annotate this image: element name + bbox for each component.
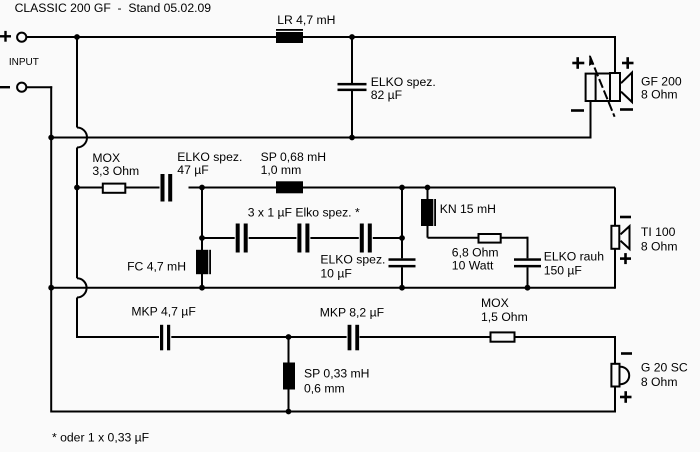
speaker TI 100 cone	[621, 226, 630, 249]
svg-text:8 Ohm: 8 Ohm	[641, 375, 678, 389]
speaker GF 200 voice coil 1	[586, 74, 596, 101]
svg-text:MKP 8,2 µF: MKP 8,2 µF	[320, 305, 384, 319]
wire: ELKO rauh branch vertical	[527, 237, 529, 259]
node: chain / branch	[199, 235, 205, 241]
wire: ELKO 10 branch vertical	[401, 188, 403, 259]
input minus terminal	[0, 86, 10, 88]
svg-text:LR 4,7 mH: LR 4,7 mH	[277, 13, 335, 27]
node: mid feed / chain branch	[199, 185, 205, 191]
node: mid return / ELKO rauh	[525, 285, 531, 291]
wire: minus rail vertical	[50, 86, 52, 412]
wire: G20SC feed drop	[614, 336, 616, 364]
wire: SP 0,33 branch upper	[288, 337, 290, 363]
svg-text:1,5 Ohm: 1,5 Ohm	[481, 310, 528, 324]
svg-text:* oder 1 x 0,33 µF: * oder 1 x 0,33 µF	[52, 430, 149, 444]
svg-text:8 Ohm: 8 Ohm	[641, 88, 678, 102]
wire: bottom section return	[51, 411, 615, 413]
wire: chain branch vertical	[201, 188, 203, 251]
inductor SP 0,33 mH	[283, 363, 295, 390]
svg-text:3,3 Ohm: 3,3 Ohm	[92, 164, 139, 178]
node: return / minus rail	[48, 135, 54, 141]
wire: top feed rail	[26, 36, 615, 38]
node: mid feed / KN branch	[425, 185, 431, 191]
svg-text:10 Watt: 10 Watt	[452, 259, 494, 273]
wire: TI100 feed drop	[614, 188, 616, 227]
inductor LR 4,7 mH	[276, 32, 303, 43]
wire: TI100 return riser	[614, 249, 616, 289]
speaker G 20 SC body	[611, 364, 619, 387]
wire: top section return	[51, 137, 590, 139]
speaker GF 200 polarity arrow	[589, 55, 615, 117]
wire: plus rail vertical middle	[76, 148, 78, 279]
svg-text:10 µF: 10 µF	[320, 267, 351, 281]
wire: SP 0,33 branch lower	[288, 389, 290, 412]
node: chain / ELKO 10	[399, 235, 405, 241]
svg-text:KN 15 mH: KN 15 mH	[440, 202, 496, 216]
inductor KN 15 mH	[421, 199, 433, 226]
inductor KN 15 mH core line	[434, 199, 436, 226]
svg-text:47 µF: 47 µF	[177, 163, 208, 177]
svg-text:G 20 SC: G 20 SC	[641, 361, 688, 375]
capacitor 1uF no.1	[235, 224, 249, 253]
svg-text:1,0 mm: 1,0 mm	[261, 163, 302, 177]
wire: minus input to rail	[26, 86, 52, 88]
speaker G 20 SC plus mark	[620, 391, 632, 403]
speaker TI 100 plus mark	[620, 253, 631, 264]
wire: bottom section feed line	[77, 336, 615, 338]
node: return / ELKO 82	[349, 135, 355, 141]
speaker GF 200 cone	[621, 73, 632, 103]
svg-text:8 Ohm: 8 Ohm	[641, 239, 678, 253]
node: mid return / ELKO 10	[399, 285, 405, 291]
wire: plus rail vertical lower	[76, 298, 78, 339]
input plus terminal	[0, 31, 11, 42]
wire: ELKO 82 branch upper	[351, 37, 353, 83]
capacitor ELKO spez. 10 uF	[389, 258, 416, 267]
svg-text:0,6 mm: 0,6 mm	[304, 382, 345, 396]
node: top feed / plus rail	[74, 34, 80, 40]
svg-text:TI 100: TI 100	[641, 225, 676, 239]
svg-text:ELKO spez.: ELKO spez.	[371, 75, 436, 89]
svg-text:ELKO spez.: ELKO spez.	[177, 150, 242, 164]
resistor 6,8 Ohm 10 Watt	[479, 234, 501, 243]
node: mid return / FC	[199, 285, 205, 291]
wire: FC to mid return	[201, 274, 203, 289]
wire hop over mid return	[77, 278, 87, 297]
speaker GF 200 frame links	[597, 74, 610, 102]
speaker GF 200 voice coil 2	[610, 73, 620, 101]
node: mid return / minus rail	[48, 285, 54, 291]
capacitor ELKO spez. 82 uF	[338, 83, 367, 91]
svg-text:ELKO spez.: ELKO spez.	[320, 252, 385, 266]
svg-text:GF 200: GF 200	[641, 74, 682, 88]
capacitor MKP 4,7 uF	[159, 325, 171, 351]
svg-text:82 µF: 82 µF	[371, 88, 402, 102]
capacitor MKP 8,2 uF	[347, 325, 360, 351]
svg-text:150 µF: 150 µF	[544, 264, 582, 278]
wire: ELKO 82 branch lower	[351, 91, 353, 138]
capacitor ELKO rauh 150 uF	[514, 258, 541, 267]
node: mid feed / plus rail	[74, 185, 80, 191]
speaker GF 200 minus mark left	[571, 109, 584, 112]
speaker TI 100 body	[611, 226, 619, 249]
speaker G 20 SC dome	[621, 367, 630, 384]
wire: 3x1uF chain line	[202, 237, 402, 239]
inductor LR 4,7 mH core line	[276, 29, 303, 31]
wire: ELKO rauh to mid return	[527, 267, 529, 288]
speaker GF 200 plus mark right	[622, 57, 634, 69]
node: top feed / ELKO branch	[349, 34, 355, 40]
svg-text:SP 0,68 mH: SP 0,68 mH	[261, 150, 326, 164]
input plus binding post	[17, 33, 26, 42]
capacitor ELKO spez. 47 uF	[160, 174, 189, 202]
node: bottom return / SP 0,33	[286, 409, 292, 415]
svg-text:MKP 4,7 µF: MKP 4,7 µF	[131, 305, 195, 319]
inductor SP 0,68 mH	[276, 181, 303, 193]
wire: G20SC return riser	[614, 387, 616, 413]
wire: KN branch vertical	[427, 188, 429, 238]
svg-text:INPUT: INPUT	[9, 57, 39, 68]
speaker TI 100 minus mark	[620, 216, 631, 219]
node: mid feed / ELKO 10 branch	[399, 185, 405, 191]
wire: mid section feed line	[77, 187, 615, 189]
wire: GF200 return riser	[590, 101, 592, 139]
wire hop over top return	[77, 128, 87, 148]
capacitor 1uF no.2	[296, 224, 310, 253]
speaker GF 200 minus mark right	[620, 108, 633, 111]
svg-text:FC 4,7 mH: FC 4,7 mH	[127, 260, 186, 274]
svg-text:SP 0,33 mH: SP 0,33 mH	[304, 367, 369, 381]
speaker G 20 SC minus mark	[621, 352, 632, 355]
input minus binding post	[17, 83, 26, 92]
wire: ELKO 10 to mid return	[401, 267, 403, 288]
capacitor 1uF no.3	[359, 224, 373, 253]
svg-text:ELKO rauh: ELKO rauh	[544, 249, 604, 263]
node: bottom feed / SP 0,33	[286, 334, 292, 340]
inductor FC 4,7 mH	[196, 250, 208, 274]
resistor MOX 3,3 Ohm	[103, 184, 126, 193]
wire: mid section return	[51, 287, 615, 289]
svg-text:3 x 1 µF Elko spez. *: 3 x 1 µF Elko spez. *	[248, 205, 360, 219]
wire: GF200 feed drop	[614, 36, 616, 73]
svg-text:MOX: MOX	[92, 151, 120, 165]
svg-text:CLASSIC 200 GF - Stand 05.02: CLASSIC 200 GF - Stand 05.02.09	[15, 1, 212, 15]
resistor MOX 1,5 Ohm	[491, 332, 515, 341]
wire: KN row horizontal	[428, 237, 528, 239]
wire: plus rail vertical upper	[76, 36, 78, 128]
inductor FC 4,7 mH core line	[209, 250, 211, 274]
speaker GF 200 plus mark left	[572, 57, 584, 69]
svg-text:6,8 Ohm: 6,8 Ohm	[452, 246, 499, 260]
svg-text:MOX: MOX	[481, 296, 509, 310]
